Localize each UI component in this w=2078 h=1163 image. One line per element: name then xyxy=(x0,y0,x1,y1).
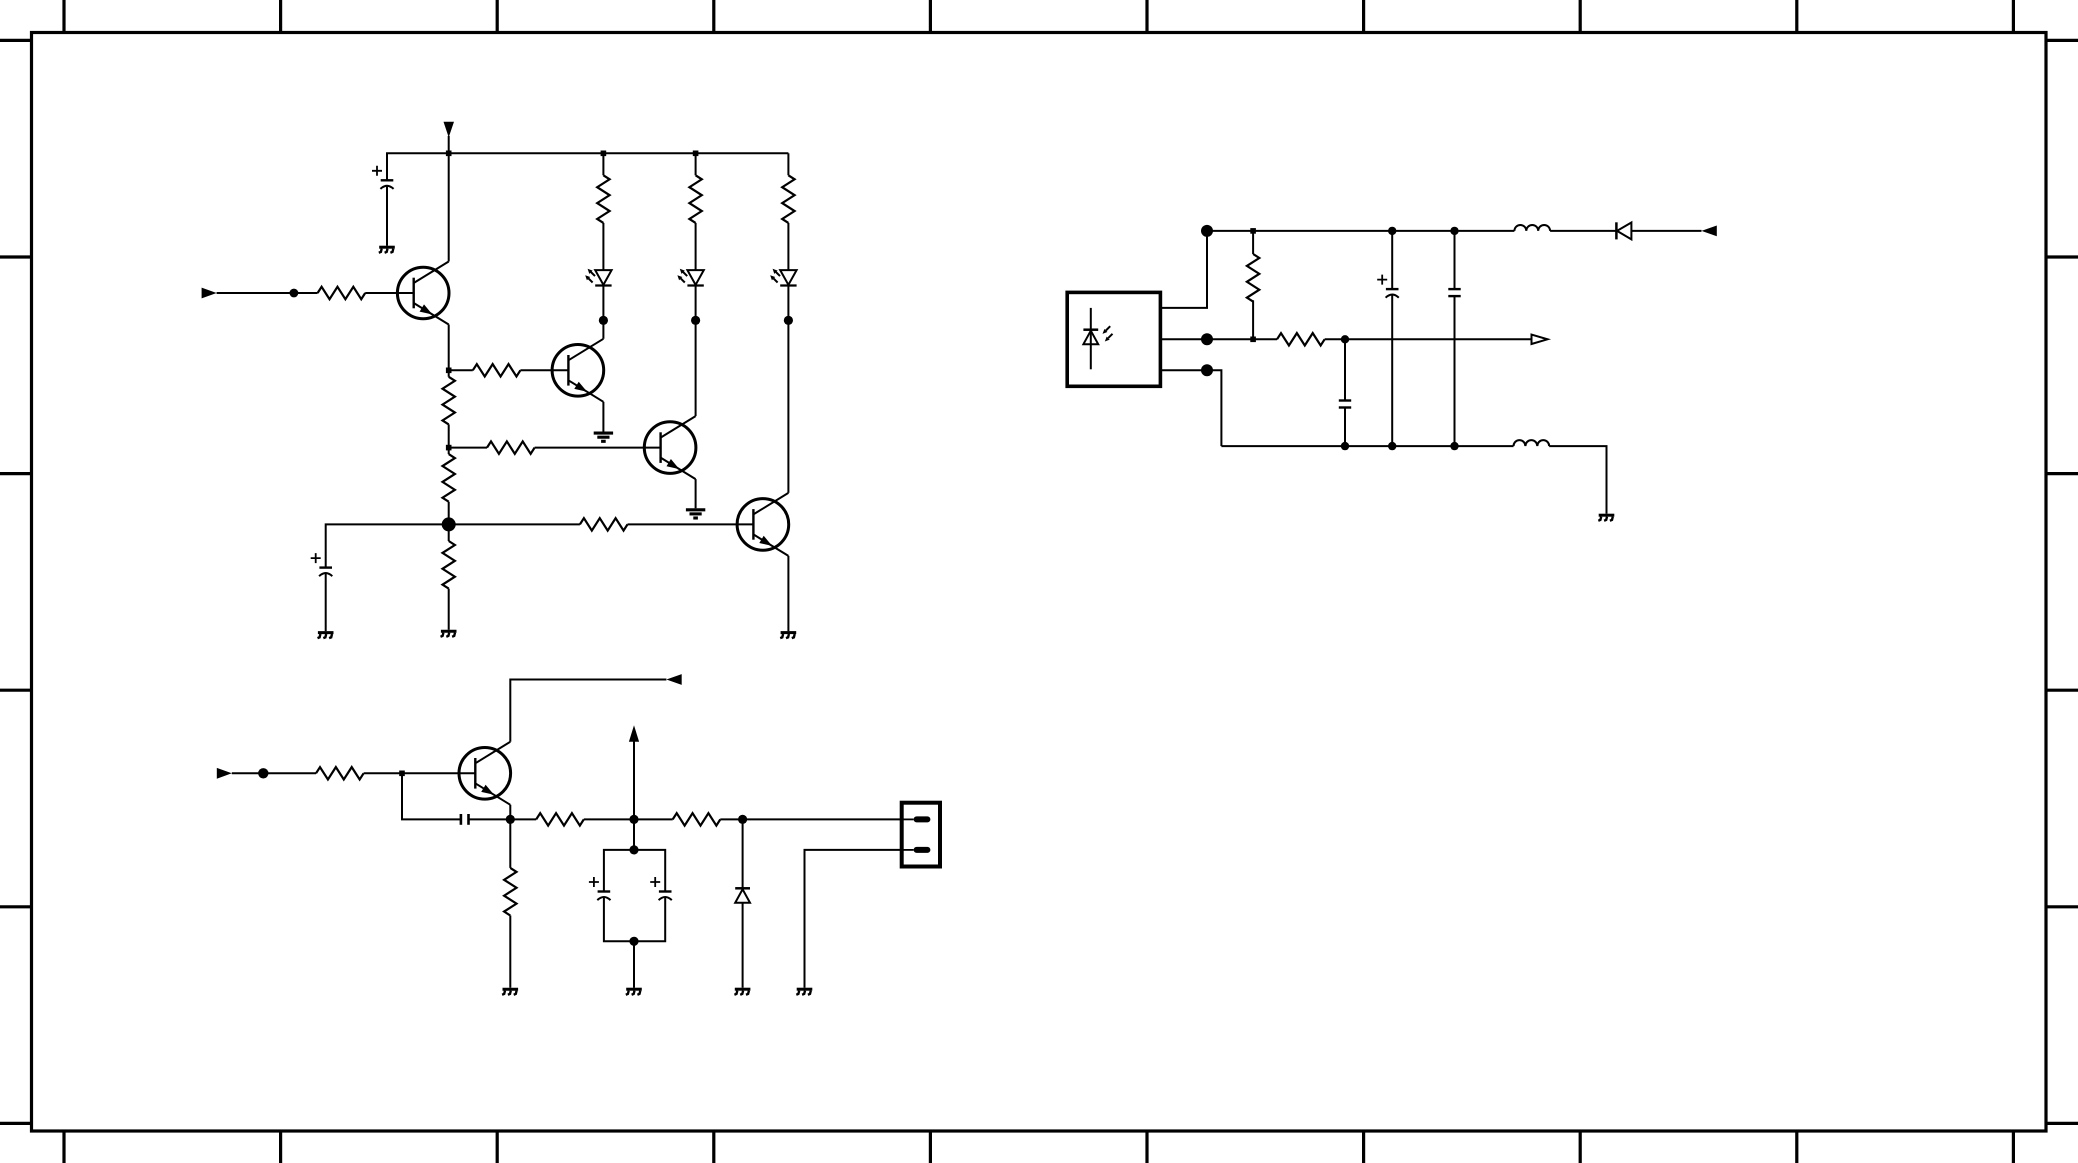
wire rail to R4 (LED3 branch) xyxy=(787,153,789,175)
wire node to Q2 collector xyxy=(602,320,604,338)
IC box U1 (photo receiver) xyxy=(1067,292,1160,386)
node dot C6/bottom rail xyxy=(1388,442,1396,450)
node dot on input wire xyxy=(258,768,268,778)
top rail wire xyxy=(387,153,788,180)
wire pin2 to ground xyxy=(805,850,902,988)
wire R8 to Q4 base xyxy=(628,523,754,525)
wire C8 branch down xyxy=(1344,339,1346,400)
ground (rake) below cap pair xyxy=(626,989,642,995)
twin cap bottom node dot xyxy=(629,937,638,946)
capacitor C5 (polarized) xyxy=(650,877,672,900)
node dot LED1/Q2 collector xyxy=(599,316,608,325)
wire R1 to Q1 base xyxy=(365,292,414,294)
wire rail to R3 xyxy=(695,153,697,175)
ground (rake) below R10 xyxy=(502,989,518,995)
node dot on input wire xyxy=(290,289,299,298)
ground (earth bars) below Q2 xyxy=(594,433,613,441)
wire R9a to power node xyxy=(584,818,634,820)
resistor R12 xyxy=(1247,254,1259,302)
wire junction B to R7 xyxy=(449,447,487,449)
wire input to R1 xyxy=(217,292,318,294)
ground (rake) below C1 xyxy=(379,247,395,253)
transistor Q5 xyxy=(459,742,511,805)
pin2 node dot xyxy=(1201,333,1213,345)
pin1 node dot xyxy=(1201,225,1213,237)
transistor Q4 xyxy=(737,493,789,556)
ground (rake) below C2 xyxy=(318,633,334,639)
node dot C7/bottom rail xyxy=(1450,442,1458,450)
wire C3 to emitter node xyxy=(469,818,511,820)
wire LED3 to node xyxy=(787,286,789,321)
resistor R6 xyxy=(473,364,521,376)
twin cap top node dot xyxy=(629,845,638,854)
wire node down to D4 xyxy=(742,819,744,888)
emitter node dot xyxy=(506,815,515,824)
wire rail to C6 xyxy=(1391,231,1393,289)
connector CN1 xyxy=(902,803,940,867)
ground (rake) below D4 xyxy=(734,989,750,995)
wire rail to R2 xyxy=(602,153,604,175)
diode D4 xyxy=(735,888,750,903)
wire LED1 to node xyxy=(602,286,604,321)
wire R7 to Q3 base xyxy=(535,447,661,449)
wire L1 to D5 xyxy=(1550,230,1616,232)
junction on rail at LED1 branch xyxy=(601,151,607,157)
node dot rail/C6 xyxy=(1388,227,1396,235)
wire Q3 emitter to ground xyxy=(695,479,697,508)
wire R11 to Q5 base xyxy=(364,772,476,774)
wire R5c to ground xyxy=(448,589,450,630)
wire cap pair bottom rails xyxy=(604,897,665,941)
capacitor C8 xyxy=(1339,401,1351,408)
wire base node down and right to C3 xyxy=(402,773,461,819)
wire R5a to junction B xyxy=(448,424,450,447)
wire Q5 collector to output xyxy=(510,680,666,742)
resistor R7 xyxy=(487,441,535,453)
wire R2 to LED1 xyxy=(602,223,604,270)
wire C2 to ground xyxy=(325,573,327,631)
resistor R9a xyxy=(536,813,584,825)
wire LED2 to node xyxy=(695,286,697,321)
diode node dot xyxy=(738,815,747,824)
power node dot xyxy=(629,815,638,824)
ground (earth bars) below Q3 xyxy=(686,510,705,518)
LED D3 xyxy=(770,269,796,286)
capacitor C4 (polarized) xyxy=(589,877,611,900)
ground (rake) below pin2 wire xyxy=(796,989,812,995)
resistor R13 xyxy=(1277,333,1325,345)
transistor Q1 xyxy=(397,262,449,325)
wire R9b to diode node xyxy=(720,818,742,820)
wire C8 to bottom rail xyxy=(1344,408,1346,447)
capacitor C7 xyxy=(1448,289,1460,296)
wire power arrow through node to cap pair xyxy=(633,740,635,850)
junction base node xyxy=(399,771,405,777)
wire node to connector CN1 xyxy=(743,818,902,820)
wire pin3 of U1 down to bottom rail xyxy=(1160,370,1221,446)
wire pin2 of U1 xyxy=(1160,338,1253,340)
wire Q5 emitter down xyxy=(509,805,511,820)
node dot C8 branch xyxy=(1341,335,1349,343)
wire Q1 collector up to rail xyxy=(448,153,450,261)
resistor R5a (chain) xyxy=(448,370,450,377)
wire Q4 emitter to ground xyxy=(787,556,789,631)
power arrow up xyxy=(629,725,639,741)
junction A xyxy=(446,368,452,374)
wire node to Q4 collector xyxy=(787,320,789,493)
wire node to R9a xyxy=(510,818,536,820)
output terminal (bottom circuit) xyxy=(666,674,681,685)
node dot C8/bottom rail xyxy=(1341,442,1349,450)
wire rail to R12 xyxy=(1252,231,1254,254)
power arrow (VCC) xyxy=(444,122,455,138)
wire node C to R8 xyxy=(449,523,580,525)
wire R4 to LED3 xyxy=(787,223,789,270)
wire R3 to LED2 xyxy=(695,223,697,270)
wire C1 to ground xyxy=(386,186,388,246)
resistor R4 xyxy=(782,175,794,223)
wire node to Q3 collector xyxy=(695,320,697,416)
resistor R5c (chain bottom) xyxy=(448,524,450,541)
wire D4 to ground xyxy=(742,903,744,988)
wire cap pair top rails xyxy=(604,850,665,892)
ground (rake) right circuit xyxy=(1598,515,1614,521)
output terminal (right circuit) xyxy=(1702,226,1717,237)
capacitor C6 (polarized) xyxy=(1377,275,1399,298)
resistor R9b xyxy=(673,813,721,825)
wire junction A to R6 xyxy=(449,369,473,371)
inductor L2 (bottom) xyxy=(1514,440,1550,446)
node dot rail/C7 xyxy=(1450,227,1458,235)
photodiode inside U1 xyxy=(1083,308,1112,369)
diode D5 xyxy=(1616,222,1631,239)
node C dot xyxy=(442,517,456,531)
input terminal (bottom circuit) xyxy=(217,768,232,779)
inductor L1 (top) xyxy=(1514,225,1550,231)
junction on rail at LED2 branch xyxy=(693,151,699,157)
capacitor C1 (polarized) xyxy=(372,166,394,189)
resistor R11 xyxy=(316,767,364,779)
resistor R8 xyxy=(580,518,628,530)
connector pin 2 xyxy=(914,847,931,853)
wire L2 to ground xyxy=(1549,446,1606,514)
wire C6 to bottom rail xyxy=(1391,295,1393,446)
wire R12 to pin2 row xyxy=(1252,300,1254,339)
top rail wire (right) xyxy=(1207,230,1514,232)
transistor Q2 xyxy=(552,339,604,402)
ground (rake) below chain xyxy=(441,631,457,637)
node dot LED2/Q3 collector xyxy=(691,316,700,325)
pin3 node dot xyxy=(1201,364,1213,376)
open arrow output xyxy=(1532,335,1548,344)
bottom rail wire (right) xyxy=(1221,445,1513,447)
wire node C left to C2 xyxy=(326,524,449,567)
capacitor C2 (polarized) xyxy=(311,553,333,576)
junction rail/R12 xyxy=(1250,228,1256,234)
junction B xyxy=(446,445,452,451)
node dot LED3/Q4 collector xyxy=(784,316,793,325)
resistor R2 xyxy=(597,175,609,223)
wire R5b to node C xyxy=(448,502,450,525)
wire R13 to output row xyxy=(1325,338,1532,340)
wire D5 to output terminal xyxy=(1631,230,1701,232)
resistor R1 xyxy=(318,287,366,299)
wire bottom node to ground xyxy=(633,941,635,988)
input terminal (row 1) xyxy=(202,288,217,299)
ground (rake) below Q4 xyxy=(780,633,796,639)
wire Q1 emitter down to junction A xyxy=(448,325,450,372)
connector pin 1 xyxy=(914,816,931,822)
wire emitter node down to R10 xyxy=(509,819,511,868)
resistor R10 xyxy=(504,868,516,916)
wire input to R xyxy=(232,772,316,774)
transistor Q3 xyxy=(644,416,696,479)
wire pin1 of U1 up to rail xyxy=(1160,231,1207,308)
resistor R5b (chain) xyxy=(448,448,450,455)
wire node to R9b xyxy=(634,818,673,820)
LED D2 xyxy=(677,269,703,286)
LED D1 xyxy=(585,269,611,286)
junction R12/pin2 row xyxy=(1250,337,1256,343)
capacitor C3 (coupling) xyxy=(461,814,469,825)
wire R10 to ground xyxy=(509,916,511,988)
wire rail to C7 xyxy=(1454,231,1456,289)
resistor R3 xyxy=(689,175,701,223)
wire C7 to bottom rail xyxy=(1454,296,1456,446)
wire pin2 row to R13 xyxy=(1253,338,1277,340)
wire Q2 emitter to ground xyxy=(602,402,604,432)
junction on rail at power line xyxy=(446,151,452,157)
wire R6 to Q2 base xyxy=(520,369,568,371)
